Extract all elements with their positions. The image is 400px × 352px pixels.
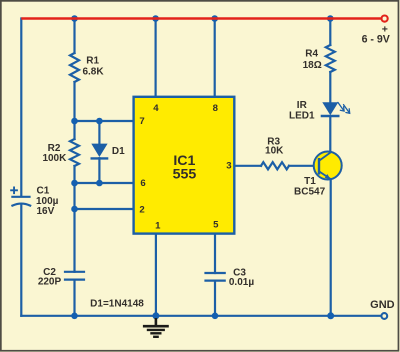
wire D1 bottom — [98, 158, 100, 183]
capacitor C1 curved plate — [12, 204, 30, 206]
wire D1 top — [98, 121, 100, 144]
junction emitter bottom rail — [327, 312, 334, 319]
svg-text:1: 1 — [155, 221, 161, 232]
junction pin2 node — [71, 206, 78, 213]
wire R3 to base — [289, 165, 319, 167]
svg-text:6.8K: 6.8K — [82, 66, 104, 77]
svg-text:LED1: LED1 — [289, 110, 315, 121]
svg-text:BC547: BC547 — [294, 187, 326, 198]
capacitor C3 — [206, 272, 225, 274]
transistor T1 — [314, 152, 342, 180]
wire pin1 to rail — [155, 234, 157, 316]
svg-text:2: 2 — [139, 205, 144, 216]
junction R4 top rail — [327, 15, 334, 22]
resistor R2 — [70, 139, 79, 166]
wire R4 to LED — [329, 72, 331, 102]
junction pin4 top rail — [152, 15, 159, 22]
wire R1 column top — [73, 19, 75, 54]
svg-text:C1: C1 — [37, 186, 50, 197]
svg-text:100K: 100K — [42, 153, 67, 164]
svg-text:16V: 16V — [37, 206, 55, 217]
wire R2 bottom to C2 — [73, 166, 75, 272]
svg-text:D1=1N4148: D1=1N4148 — [90, 299, 144, 310]
junction C3 bottom rail — [212, 313, 219, 320]
svg-text:10K: 10K — [265, 146, 284, 157]
diode D1 — [91, 144, 107, 157]
ground symbol — [143, 318, 169, 337]
svg-text:6 - 9V: 6 - 9V — [362, 34, 390, 46]
svg-text:7: 7 — [139, 116, 144, 127]
svg-text:R4: R4 — [305, 49, 318, 60]
wire pin8 — [214, 19, 216, 98]
junction R2 bottom node — [71, 180, 78, 187]
svg-text:0.01µ: 0.01µ — [229, 277, 254, 288]
svg-text:4: 4 — [153, 103, 159, 114]
junction D1 anode node — [96, 118, 103, 125]
wire pin7 node — [75, 120, 135, 122]
svg-text:3: 3 — [226, 161, 231, 172]
capacitor C1 plus plate — [12, 196, 29, 198]
supply red wire — [21, 17, 381, 19]
C1 plus sign — [10, 187, 18, 195]
junction pin1 bottom rail — [152, 312, 159, 319]
junction R2/D1 top node — [71, 118, 78, 125]
wire R4 column top — [329, 19, 331, 46]
svg-text:8: 8 — [213, 103, 219, 114]
svg-text:555: 555 — [173, 166, 197, 182]
junction C2 bottom rail — [71, 313, 78, 320]
wire pin4 — [155, 19, 157, 98]
GND terminal — [381, 313, 387, 319]
wire pin5 to C3 — [214, 234, 216, 274]
IR LED1 — [322, 102, 338, 115]
svg-text:R1: R1 — [86, 56, 99, 67]
svg-text:5: 5 — [213, 219, 219, 230]
svg-text:18Ω: 18Ω — [303, 60, 322, 71]
wire pin3 to R3 — [235, 165, 262, 167]
IC1 555 body — [134, 97, 235, 234]
wire C3 to rail — [214, 281, 216, 316]
wire LED to transistor — [329, 116, 331, 152]
wire bottom rail — [21, 315, 381, 317]
wire emitter to rail — [330, 179, 332, 316]
wire C2 to bottom rail — [73, 280, 75, 316]
supply terminal — [382, 16, 388, 22]
capacitor C2 — [65, 271, 84, 273]
wire pin2 node — [75, 208, 135, 210]
wire pin6 node — [75, 182, 135, 184]
wire left rail — [20, 19, 22, 197]
svg-text:220P: 220P — [38, 277, 62, 288]
resistor R3 — [261, 162, 289, 169]
emitter arrowhead — [325, 174, 331, 179]
junction pin8 top rail — [211, 15, 218, 22]
svg-text:D1: D1 — [112, 146, 125, 157]
svg-text:GND: GND — [370, 299, 395, 311]
resistor R1 — [70, 53, 79, 82]
svg-text:6: 6 — [140, 178, 145, 189]
resistor R4 — [326, 45, 335, 72]
junction D1 cathode node — [96, 180, 103, 187]
junction R1 top rail — [71, 15, 78, 22]
wire R1 to node — [73, 82, 75, 139]
svg-text:T1: T1 — [304, 176, 316, 187]
LED emission arrows — [338, 102, 350, 113]
